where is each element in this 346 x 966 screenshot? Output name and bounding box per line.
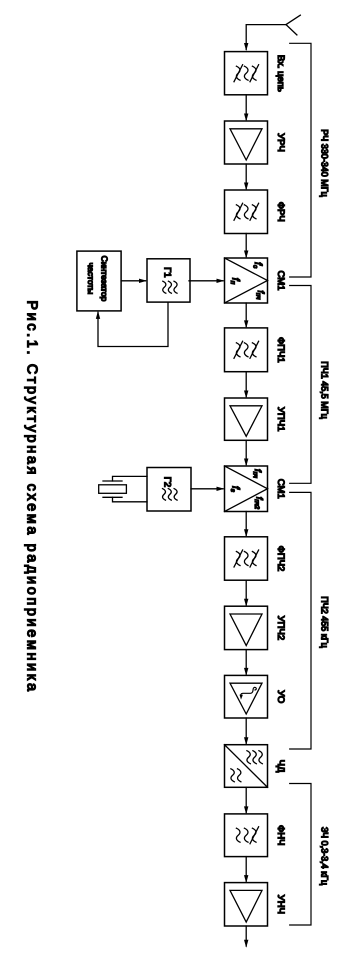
antenna	[286, 15, 300, 35]
block amplifier УРЧ	[225, 121, 268, 164]
svg-text:частоты: частоты	[86, 263, 96, 295]
svg-text:ФПЧ1: ФПЧ1	[275, 337, 286, 363]
label СМ1	[275, 271, 286, 291]
svg-text:ФРЧ: ФРЧ	[275, 202, 286, 222]
block detector ЧД	[225, 745, 268, 788]
block amplifier УПЧ1	[225, 398, 268, 440]
svg-text:Г1: Г1	[162, 267, 173, 277]
bracket РЧ 330-340 МГц	[290, 43, 330, 277]
block G1 oscillator	[147, 259, 190, 302]
block amplifier УПЧ2	[225, 606, 268, 649]
wire antenna to input block	[244, 25, 286, 51]
output wire	[244, 926, 248, 948]
label ФПЧ2	[275, 546, 286, 572]
svg-text:УПЧ2: УПЧ2	[275, 616, 286, 640]
label ФПЧ1	[275, 337, 286, 363]
svg-text:УПЧ1: УПЧ1	[275, 407, 286, 431]
bracket ПЧ2 455 кГц	[290, 492, 330, 749]
caption	[24, 300, 40, 693]
svg-text:ФПЧ2: ФПЧ2	[275, 546, 286, 572]
svg-text:Рис.1. Структурная схема радио: Рис.1. Структурная схема радиоприемника	[24, 300, 40, 693]
wire 2	[244, 164, 248, 191]
svg-text:Вх. цепь: Вх. цепь	[275, 55, 286, 92]
block G2 oscillator	[147, 468, 191, 512]
label УПЧ2	[275, 616, 286, 640]
bracket ПЧ1 45,5 МГц	[290, 286, 330, 484]
svg-text:СМ1: СМ1	[275, 271, 286, 291]
block mixer СМ1	[225, 466, 268, 512]
label УПЧ1	[275, 407, 286, 431]
svg-text:Синтезатор: Синтезатор	[99, 256, 109, 302]
block low-pass filter ФНЧ	[225, 814, 268, 857]
block mixer СМ1	[225, 258, 268, 303]
label ЧД	[275, 760, 286, 773]
block synthesizer	[77, 251, 121, 311]
label УНЧ	[275, 895, 286, 914]
block amplifier УНЧ	[225, 883, 268, 926]
svg-text:УРЧ: УРЧ	[275, 133, 286, 152]
label ФНЧ	[275, 825, 286, 845]
svg-text:СМ1: СМ1	[275, 479, 286, 499]
wire 12	[244, 857, 248, 884]
label ФРЧ	[275, 202, 286, 222]
block filter ФРЧ	[225, 190, 268, 234]
svg-text:ЗЧ 0,3-3,4 кГц: ЗЧ 0,3-3,4 кГц	[320, 827, 330, 885]
wire 11	[244, 787, 248, 814]
wire 9	[244, 650, 248, 676]
wire 7	[244, 512, 248, 538]
label СМ1	[275, 479, 286, 499]
block filter Вх. цепь	[225, 52, 268, 95]
wire 6	[244, 440, 248, 466]
feedback wire G1 to synthesizer	[96, 303, 168, 347]
svg-text:УО: УО	[275, 690, 286, 703]
block limiter amp УО	[225, 675, 268, 718]
svg-text:ФНЧ: ФНЧ	[275, 825, 286, 845]
svg-text:УНЧ: УНЧ	[275, 895, 286, 914]
label УО	[275, 690, 286, 703]
crystal resonator	[99, 476, 147, 501]
bracket ЗЧ 0,3-3,4 кГц	[290, 784, 330, 926]
svg-text:ПЧ2 455 кГц: ПЧ2 455 кГц	[320, 596, 330, 647]
svg-text:ПЧ1 45,5 МГц: ПЧ1 45,5 МГц	[320, 361, 330, 419]
wire 4	[244, 303, 248, 328]
wire 1	[244, 95, 248, 122]
wire G1 to mixer1	[189, 279, 225, 283]
label Вх. цепь	[275, 55, 286, 92]
block filter ФПЧ2	[225, 537, 268, 580]
svg-text:ЧД: ЧД	[275, 760, 286, 773]
wire 3	[244, 234, 248, 259]
wire 8	[244, 580, 248, 607]
svg-text:Г2: Г2	[161, 477, 172, 487]
wire 5	[244, 372, 248, 399]
label УРЧ	[275, 133, 286, 152]
wire G2 to mixer2	[191, 487, 225, 491]
wire 10	[244, 718, 248, 745]
block filter ФПЧ1	[225, 328, 268, 372]
wire synthesizer to G1	[121, 279, 147, 283]
svg-text:РЧ 330-340 МГц: РЧ 330-340 МГц	[320, 129, 330, 197]
